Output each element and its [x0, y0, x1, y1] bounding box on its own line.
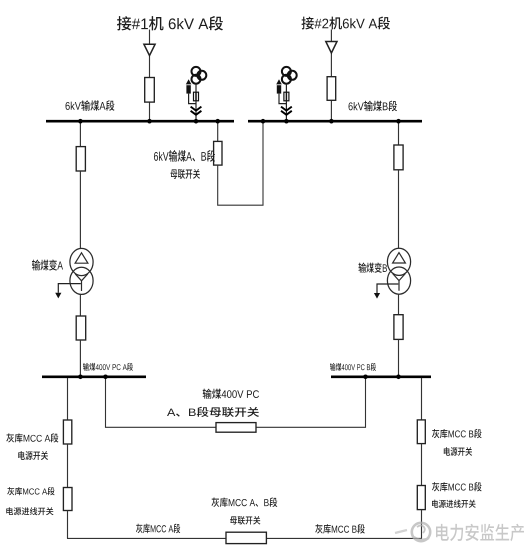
- breaker: 灰库MCC B段 电源开关: [417, 420, 425, 444]
- breaker: transformer B LV switch: [394, 315, 403, 340]
- junction: PT/bus: [284, 119, 289, 124]
- wire: stem to bus: [195, 101, 197, 120]
- arrester arrow (up) on left branch: [186, 79, 192, 84]
- breaker: transformer A LV switch: [76, 316, 86, 340]
- junction: incomer1/busA: [147, 119, 152, 124]
- wire: bottom MCC A-B link: [67, 537, 422, 539]
- fuse: PT stem fuse: [194, 92, 199, 101]
- junction: tie/busB: [261, 119, 266, 124]
- junction: incomer2/busB: [329, 119, 334, 124]
- junction: tie/busA: [215, 119, 220, 124]
- wire: bus B to transformer B: [398, 122, 400, 145]
- breaker: incomer 1 switch: [145, 78, 155, 103]
- wire: down to transformer A: [79, 171, 81, 249]
- label: 灰库MCC B段 (bottom): [315, 524, 365, 534]
- bus: 6kV coal-conveying section B busbar: [248, 120, 422, 123]
- wire: 400V tie path: [106, 378, 366, 427]
- wire: PT stem: [195, 84, 197, 93]
- label: 输煤400V PC B段: [330, 363, 376, 371]
- junction: xfmrA feeder/busA: [78, 119, 83, 124]
- wire: to 400V PC B bus: [398, 339, 400, 375]
- junction: PT/bus: [194, 119, 199, 124]
- label: A、B段母联开关 (tie line 2): [167, 407, 259, 417]
- label: 电源进线开关 (B): [432, 500, 476, 508]
- wire: 400V busA down to MCC A: [67, 378, 69, 420]
- breaker: transformer B HV switch: [394, 145, 403, 170]
- junction: xfmrA/400V busA: [78, 375, 83, 380]
- disconnector chevrons: [191, 107, 202, 111]
- transformer T1 输煤变A primary (delta): [70, 248, 93, 275]
- breaker: 6kV A/B bus-tie switch: [214, 141, 222, 165]
- label: 电源开关 (A): [18, 451, 48, 460]
- transformer T2 输煤变B primary (delta): [387, 248, 410, 275]
- label: 输煤变A: [32, 259, 63, 270]
- breaker: 灰库MCC A段 电源开关: [63, 420, 71, 444]
- wire: stem to bus: [285, 101, 287, 120]
- disconnector chevrons: [281, 107, 292, 111]
- label: 电源开关 (B): [444, 447, 472, 456]
- label: 输煤400V PC (tie line 1): [203, 389, 259, 399]
- label: 6kV输煤B段: [349, 101, 397, 112]
- breaker: 400V PC A/B bus-tie switch: [216, 423, 256, 433]
- wire: MCC A down to bottom bus: [67, 511, 69, 539]
- label: 灰库MCC B段 (2): [432, 482, 482, 491]
- breaker: incomer 2 switch: [327, 77, 336, 101]
- wire: between MCC A switches: [67, 444, 69, 488]
- breaker: transformer A HV switch: [76, 147, 85, 171]
- surge arrester body (filled): [277, 85, 281, 93]
- bus: 输煤400V PC A busbar: [42, 375, 146, 378]
- wire: down to transformer B: [398, 170, 400, 249]
- breaker: 灰库MCC A/B bus-tie switch: [226, 532, 266, 543]
- label: 母联开关 (6kV tie): [170, 169, 199, 179]
- label: 电源进线开关 (A): [6, 507, 53, 515]
- wire: MCC B down to bottom bus: [421, 510, 423, 539]
- label: 灰库MCC A段 (2): [7, 487, 54, 495]
- label: 接#2机6kV A段: [301, 16, 390, 29]
- wire: transformer B to LV switch: [398, 294, 400, 315]
- wire: left branch elbow: [279, 94, 286, 104]
- fuse: PT stem fuse: [284, 92, 289, 101]
- label: 输煤400V PC A段: [83, 363, 133, 371]
- arrow: open triangle on incomer 1: [144, 44, 155, 55]
- arrow: open triangle on incomer 2: [326, 42, 337, 54]
- breaker: 灰库MCC A段 电源进线开关: [63, 488, 72, 511]
- PT winding circles: [192, 67, 201, 76]
- neutral ground of transformer B: [377, 284, 398, 293]
- watermark: 电力安监生产 logo+text (light grey): [395, 523, 524, 541]
- junction: 400V tie/busA: [103, 375, 108, 380]
- arrester arrow (up) on left branch: [276, 79, 282, 84]
- junction: 400V tie/busB: [363, 375, 368, 380]
- wire: PT stem: [285, 84, 287, 93]
- wire: bus tie drop from bus A: [217, 122, 219, 141]
- junction: xfmrB/400V busB: [396, 375, 401, 380]
- label: 6kV输煤A段: [65, 100, 114, 111]
- wire: 400V busB down to MCC B: [421, 378, 423, 420]
- transformer T1 secondary (wye): [70, 267, 93, 294]
- transformer T2 secondary (wye): [387, 267, 410, 294]
- label: 灰库MCC A、B段: [212, 497, 278, 507]
- neutral ground of transformer A: [58, 284, 81, 293]
- label: 输煤变B: [359, 263, 388, 273]
- PT winding circles: [282, 67, 291, 76]
- label: 6kV输煤A、B段: [154, 150, 215, 162]
- wire: incomer from unit 2 down to bus B: [330, 30, 332, 122]
- wire: between MCC B switches: [421, 444, 423, 486]
- label: 灰库MCC A段 (bottom): [136, 524, 180, 534]
- junction: xfmrB feeder/busB: [396, 119, 401, 124]
- bus: 6kV coal-conveying section A busbar: [46, 120, 234, 123]
- surge arrester body (filled): [186, 85, 190, 93]
- label: 接#1机 6kV A段: [117, 16, 223, 30]
- bus: 输煤400V PC B busbar: [331, 375, 431, 378]
- label: 灰库MCC B段 (1): [432, 429, 482, 438]
- wire: to 400V PC A bus: [79, 340, 81, 376]
- wire: transformer A to LV switch: [79, 295, 81, 317]
- wire: incomer from unit 1 down to bus A: [149, 30, 151, 122]
- breaker: 灰库MCC B段 电源进线开关: [417, 486, 425, 510]
- label: 灰库MCC A段 (1): [6, 433, 58, 442]
- label: 母联开关 (MCC tie): [230, 516, 260, 525]
- wire: left branch elbow: [189, 94, 196, 104]
- wire: bus tie U path: [218, 122, 263, 205]
- wire: bus A to transformer A: [79, 122, 81, 147]
